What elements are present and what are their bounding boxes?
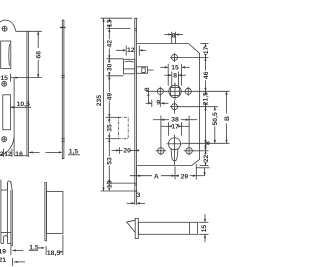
svg-text:1,5: 1,5 bbox=[29, 245, 39, 252]
svg-text:235: 235 bbox=[96, 95, 103, 107]
svg-text:49: 49 bbox=[107, 93, 114, 101]
svg-text:46: 46 bbox=[203, 71, 210, 79]
svg-text:8: 8 bbox=[173, 73, 177, 80]
svg-text:13: 13 bbox=[107, 180, 114, 188]
svg-text:8: 8 bbox=[144, 87, 151, 91]
svg-text:20: 20 bbox=[123, 148, 131, 155]
svg-text:42: 42 bbox=[107, 40, 114, 48]
svg-text:3: 3 bbox=[137, 192, 141, 199]
svg-text:53: 53 bbox=[107, 157, 114, 165]
svg-text:A: A bbox=[154, 174, 159, 181]
svg-text:29: 29 bbox=[181, 174, 189, 181]
svg-text:10,5: 10,5 bbox=[17, 101, 30, 108]
svg-text:12: 12 bbox=[127, 47, 135, 54]
svg-text:2: 2 bbox=[0, 151, 4, 158]
svg-text:B: B bbox=[224, 116, 231, 121]
svg-text:18,5: 18,5 bbox=[47, 250, 60, 257]
svg-text:8: 8 bbox=[204, 141, 211, 145]
svg-text:9: 9 bbox=[156, 100, 160, 107]
svg-text:21: 21 bbox=[0, 257, 6, 264]
svg-text:13: 13 bbox=[107, 19, 114, 27]
svg-text:17: 17 bbox=[203, 46, 210, 54]
svg-text:15: 15 bbox=[171, 64, 179, 71]
svg-text:22: 22 bbox=[203, 155, 210, 163]
svg-text:8: 8 bbox=[172, 32, 176, 39]
svg-text:50,5: 50,5 bbox=[212, 112, 219, 125]
svg-text:17: 17 bbox=[171, 123, 179, 130]
svg-text:21,5: 21,5 bbox=[202, 92, 209, 105]
svg-text:66: 66 bbox=[36, 51, 43, 59]
svg-text:15: 15 bbox=[201, 225, 208, 233]
svg-text:12: 12 bbox=[4, 151, 12, 158]
svg-text:19: 19 bbox=[0, 248, 6, 255]
svg-text:35: 35 bbox=[107, 124, 114, 132]
svg-text:30: 30 bbox=[107, 63, 114, 71]
svg-text:1,5: 1,5 bbox=[69, 148, 79, 155]
svg-text:16: 16 bbox=[15, 151, 23, 158]
svg-text:15: 15 bbox=[0, 75, 8, 82]
